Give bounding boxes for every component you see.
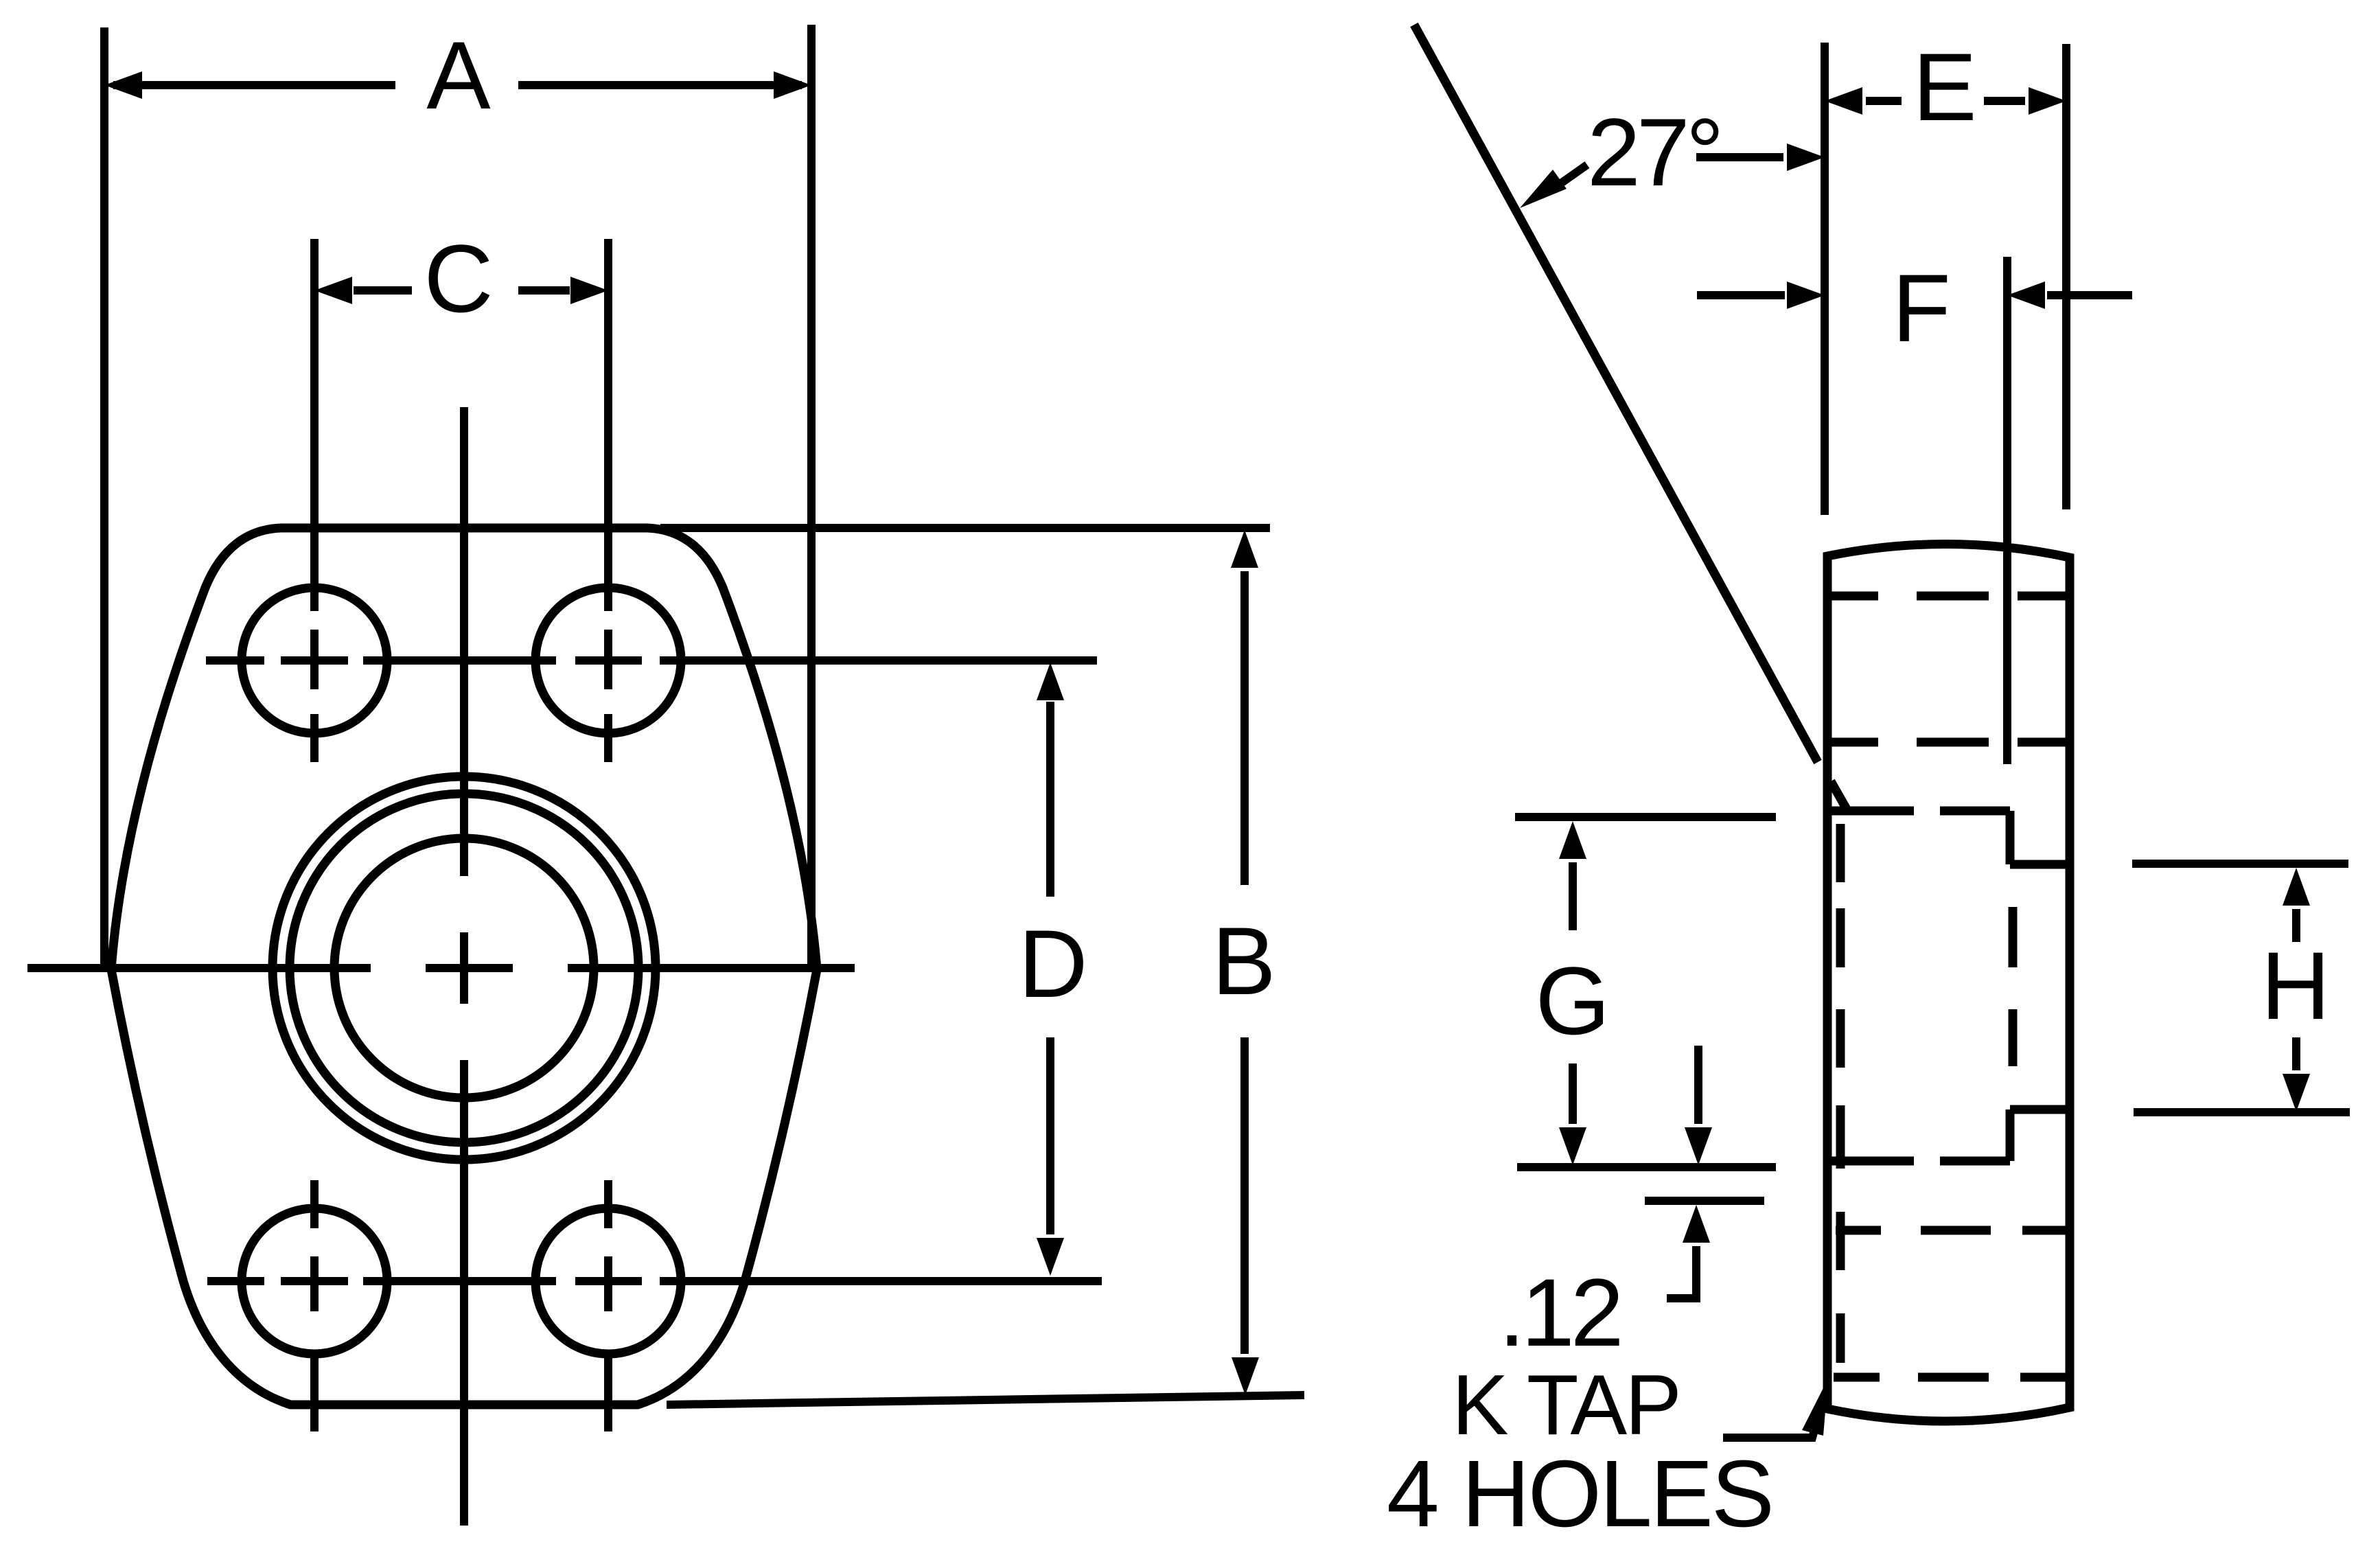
horizontal centerline lower holes / D bottom extension bbox=[207, 1277, 1102, 1285]
svg-text:D: D bbox=[1018, 910, 1087, 1017]
face bevel edge bbox=[1831, 781, 1848, 812]
horizontal centerline upper holes / D top extension bbox=[206, 656, 1097, 665]
dimension H bottom arrow bbox=[2283, 1037, 2310, 1112]
K TAP leader line with arrow bbox=[1723, 1379, 1828, 1438]
hidden line port bore top bbox=[1830, 807, 2010, 816]
dimension B extension bottom (flange bottom edge extended) bbox=[667, 1395, 1304, 1405]
bolt hole bottom-left bbox=[242, 1208, 387, 1354]
dimension F right arrow bbox=[2007, 281, 2132, 309]
dimension A extension line right bbox=[807, 25, 816, 969]
centerline vertical top-left hole / C extension bbox=[310, 239, 319, 762]
hidden line bottom bolt hole lower bbox=[1834, 1373, 2066, 1382]
hidden line port bore bottom bbox=[1830, 1157, 2010, 1166]
dimension B extension top (flange top edge extended) bbox=[660, 524, 1270, 532]
dimension H top arrow bbox=[2283, 868, 2310, 942]
27 degree slant line bbox=[1414, 25, 1818, 762]
svg-text:.12: .12 bbox=[1499, 1258, 1620, 1366]
port middle circle bbox=[290, 794, 638, 1142]
svg-text:F: F bbox=[1892, 254, 1951, 362]
dimension C line with arrows bbox=[314, 277, 608, 304]
dimension E extension left bbox=[1821, 43, 1829, 515]
bolt hole top-left bbox=[242, 588, 387, 733]
side view outline bbox=[1827, 544, 2070, 1421]
27 degree leader arrow to face line bbox=[1696, 143, 1825, 171]
hidden line top bolt hole lower bbox=[1829, 738, 2066, 747]
dimension F left arrow bbox=[1697, 281, 1825, 309]
dimension F extension line bbox=[2003, 257, 2011, 764]
svg-text:B: B bbox=[1212, 907, 1275, 1015]
dimension H top extension bbox=[2132, 860, 2348, 868]
dimension B line with arrows bbox=[1231, 530, 1259, 1395]
counterbore step top bbox=[2010, 811, 2070, 864]
dimension G top extension bbox=[1515, 813, 1776, 821]
svg-text:C: C bbox=[424, 225, 493, 332]
extra down arrow at .12 step bbox=[1685, 1046, 1712, 1165]
dimension E line with arrows bbox=[1825, 87, 2066, 115]
port outer circle bbox=[273, 776, 656, 1160]
dimension A extension line left bbox=[100, 27, 108, 969]
hidden raised face edge bbox=[1836, 824, 1845, 1363]
.12 leader arrow bbox=[1667, 1205, 1710, 1298]
flange outline (front view) bbox=[111, 528, 817, 1405]
horizontal centerline of port bbox=[27, 964, 855, 972]
svg-text:4 HOLES: 4 HOLES bbox=[1387, 1441, 1772, 1547]
dimension E extension right bbox=[2062, 44, 2070, 509]
bolt hole top-right bbox=[535, 588, 681, 733]
centerline vertical top-right hole / C extension bbox=[604, 239, 612, 762]
27 degree leader arrow to slant line bbox=[1520, 165, 1587, 208]
counterbore step bottom bbox=[2010, 1109, 2070, 1161]
centerline vertical bottom-right hole bbox=[604, 1180, 612, 1431]
hidden line top bolt hole upper bbox=[1829, 592, 2066, 601]
svg-text:K TAP: K TAP bbox=[1452, 1358, 1680, 1453]
dimension A line with arrows bbox=[104, 71, 811, 99]
.12 extension line bbox=[1645, 1197, 1764, 1205]
dimension G bottom arrow bbox=[1559, 1063, 1586, 1165]
svg-text:E: E bbox=[1913, 33, 1976, 141]
hidden line bottom bolt hole upper bbox=[1836, 1226, 2068, 1235]
hidden counterbore wall bbox=[2009, 907, 2018, 1066]
svg-text:A: A bbox=[426, 21, 491, 129]
svg-text:G: G bbox=[1536, 947, 1610, 1055]
dimension D line with arrows bbox=[1037, 663, 1064, 1276]
vertical centerline of port bbox=[460, 407, 468, 1526]
port bore circle bbox=[334, 838, 594, 1098]
bolt hole bottom-right bbox=[535, 1208, 681, 1354]
centerline vertical bottom-left hole bbox=[310, 1180, 319, 1431]
dimension G bottom extension bbox=[1517, 1163, 1776, 1171]
dimension G top arrow bbox=[1559, 821, 1586, 930]
dimension H bottom extension bbox=[2134, 1108, 2350, 1116]
svg-text:27°: 27° bbox=[1587, 98, 1720, 206]
svg-text:H: H bbox=[2261, 932, 2330, 1039]
